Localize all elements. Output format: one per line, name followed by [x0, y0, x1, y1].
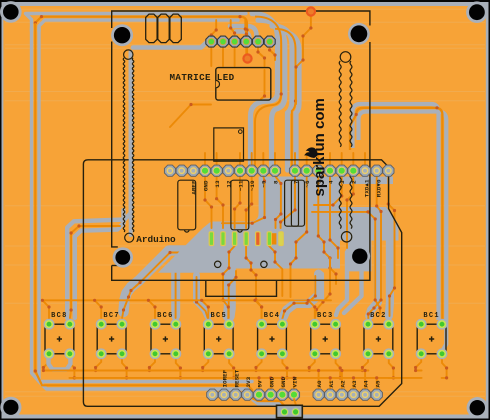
svg-text:TXD▲1: TXD▲1 [364, 179, 371, 197]
gray trace: top horizontal bus pair [39, 20, 238, 31]
orange trace: BC5 feeder route [229, 271, 236, 318]
transistor footprint BC7 [96, 312, 128, 359]
copper pour strip under digital header group 2 [276, 177, 393, 185]
svg-text:5V: 5V [257, 380, 264, 388]
orange trace: BC6 feeder route [170, 262, 176, 318]
orange trace: BC7 feeder route [122, 253, 202, 319]
svg-text:Arduino: Arduino [136, 234, 176, 245]
svg-text:BC4: BC4 [264, 312, 281, 320]
copper pour right lobe [333, 207, 399, 271]
mounting hole at 11,407 [0, 397, 21, 418]
Arduino board outline [112, 42, 118, 247]
resistor network R2 outline [231, 180, 249, 230]
transistor footprint BC1 [416, 312, 448, 359]
resistor network R1 outline [178, 180, 196, 230]
orange trace: diagonal under IC [170, 105, 211, 128]
pour window circles [215, 261, 221, 267]
gray trace: BC3 feeders [336, 252, 347, 315]
mounting hole at 360,256 [350, 246, 371, 267]
crystal/button footprint outline [214, 128, 244, 161]
svg-text:A4: A4 [363, 380, 370, 388]
transistor footprint BC3 [309, 312, 341, 359]
svg-text:MATRICE LED: MATRICE LED [170, 72, 235, 83]
svg-text:RESET: RESET [233, 369, 240, 387]
orange trace: header stubs down to driver IC [210, 44, 212, 66]
svg-text:7: 7 [292, 180, 299, 184]
svg-text:12: 12 [226, 180, 233, 188]
svg-text:3V3: 3V3 [245, 376, 252, 387]
orange trace: emitter buses [49, 370, 368, 372]
orange trace: BC8 feeder route [70, 226, 120, 318]
gray trace: BC6 feeder channel [171, 262, 180, 316]
LED driver IC outline U1 [216, 68, 271, 101]
gray trace: BC7 diagonal feeder bundle [124, 251, 206, 313]
svg-text:GND: GND [268, 376, 275, 387]
svg-text:8: 8 [272, 180, 279, 184]
svg-text:A5: A5 [374, 380, 381, 388]
right header pin chain upper [340, 52, 351, 63]
svg-text:~11: ~11 [237, 180, 244, 191]
orange trace: power pads feeders [258, 378, 260, 390]
svg-text:A2: A2 [340, 380, 347, 388]
svg-text:BC7: BC7 [103, 312, 120, 320]
Arduino USB connector notch [206, 280, 277, 296]
gray trace: top-right S-bend bundle at IC [230, 26, 257, 38]
digital header pads group 2 [289, 165, 394, 176]
gray trace: left header-chain feed [67, 52, 131, 318]
svg-text:VIN: VIN [292, 376, 299, 387]
gray trace: chain-top to matrix header [133, 42, 211, 48]
orange trace: BC collector loops to bottom buses [43, 356, 49, 371]
orange traces within IC-side bundle [255, 17, 281, 170]
status LED bars [209, 232, 283, 246]
analog header pads [313, 389, 382, 400]
svg-text:BC8: BC8 [51, 312, 68, 320]
svg-text:~9: ~9 [261, 180, 268, 188]
orange trace: right bus [350, 108, 442, 322]
gray trace: left vertical bus pair [32, 28, 253, 382]
gray trace: BC8 emitter loop [49, 356, 71, 370]
power connector silkscreen (3 stadium outlines) [146, 14, 157, 42]
svg-text:A3: A3 [351, 380, 358, 388]
transistor footprint BC8 [44, 312, 76, 359]
svg-text:4: 4 [327, 180, 334, 184]
battery connector outline [277, 405, 303, 417]
via V2 [306, 6, 316, 16]
digital header pads group 1 [164, 165, 280, 176]
orange trace: mid-right jogs on pour [312, 212, 380, 314]
orange trace: analog pads feeders [318, 371, 320, 391]
svg-text:BC3: BC3 [317, 312, 334, 320]
mounting hole at 477,408 [467, 397, 488, 418]
orange trace: routes across pour from digital header [205, 176, 212, 228]
svg-text:~3: ~3 [339, 180, 346, 188]
svg-text:A1: A1 [328, 380, 335, 388]
orange trace: left bus vertical + bottom run [35, 24, 284, 411]
via V1 [242, 53, 252, 63]
right header pin chain lower [339, 174, 341, 229]
svg-text:RXD▼0: RXD▼0 [375, 179, 382, 197]
resistor network R3 outline [285, 180, 305, 226]
mounting hole at 359,34 [348, 23, 370, 45]
svg-text:13: 13 [214, 180, 221, 188]
gray trace: bottom bus tail to battery connector [250, 389, 281, 404]
orange trace: top bus [35, 17, 247, 54]
mounting hole at 123,257 [113, 247, 133, 267]
svg-text:~10: ~10 [249, 180, 256, 191]
gray trace: right horizontal bus pair [353, 104, 439, 320]
orange trace: IC internal route [261, 70, 265, 99]
orange trace: top-right via route [296, 14, 311, 104]
svg-text:BC5: BC5 [210, 312, 227, 320]
svg-text:2: 2 [351, 180, 358, 184]
power header pads [207, 389, 300, 400]
mounting hole at 122,35 [111, 24, 133, 46]
svg-text:sparkfun com: sparkfun com [311, 98, 328, 196]
left header pin chain [129, 57, 133, 235]
gray trace: BC5 feeder channel [229, 266, 230, 316]
svg-text:IOREF: IOREF [222, 369, 229, 387]
orange trace: TXD/RXD routes down to BC2 [368, 176, 381, 320]
gray trace: BC5 left feeder channel [197, 275, 208, 316]
mounting hole at 11,12 [0, 1, 22, 23]
svg-text:BC2: BC2 [370, 312, 387, 320]
svg-text:GND: GND [280, 376, 287, 387]
svg-text:BC6: BC6 [157, 312, 174, 320]
gray trace: BC4 feeder S-channel [283, 274, 318, 317]
central copper pour region [158, 177, 340, 273]
power header labels [222, 369, 299, 387]
orange trace: base resistor bus to BC transistors [42, 299, 331, 301]
analog header labels [316, 380, 381, 388]
orange trace: BC4 feeder route [282, 276, 315, 319]
orange trace: VIN to battery pad [294, 399, 296, 410]
svg-text:GND: GND [202, 180, 209, 191]
svg-text:BC1: BC1 [423, 312, 440, 320]
transistor footprint BC6 [150, 312, 182, 359]
svg-text:AREF: AREF [191, 180, 198, 195]
shield board outline [83, 160, 401, 406]
mounting hole at 477,12 [466, 1, 488, 23]
matrix header J2 pads [206, 36, 275, 47]
orange trace: top bundle arcs into LED matrix header [211, 20, 216, 40]
battery connector pads [280, 407, 289, 416]
sparkfun flame logo [304, 147, 317, 157]
orange trace: stubs above digital header [204, 153, 206, 170]
transistor footprint BC4 [256, 312, 288, 359]
orange trace: pour-bottom fan to BC feeders [246, 246, 262, 320]
gray trace: BC2 feeder channels [369, 238, 378, 316]
svg-text:A0: A0 [316, 380, 323, 388]
orange trace: pour routes to BC feeders [291, 176, 307, 297]
orange trace: BC5 left feeder route [197, 277, 208, 318]
transistor footprint BC5 [203, 312, 235, 359]
transistor footprint BC2 [363, 312, 395, 359]
digital header pin labels [191, 179, 383, 197]
